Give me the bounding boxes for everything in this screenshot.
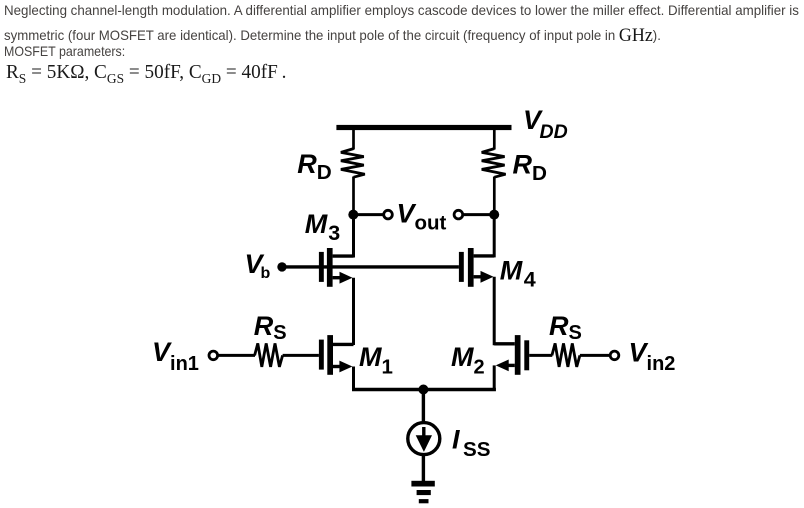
wire VDD to left RD — [352, 130, 355, 150]
resistor RD left — [341, 149, 365, 178]
svg-text:VDD: VDD — [523, 105, 568, 143]
node left drain (dot) — [348, 210, 358, 220]
Vin1 terminal (open circle) — [209, 351, 218, 360]
Vin2 terminal (open circle) — [610, 351, 619, 360]
transistor M3 — [319, 248, 354, 287]
svg-text:RD: RD — [513, 149, 548, 185]
wire left node to M3 drain — [352, 215, 355, 258]
wire Vout terminal right to right node — [463, 213, 494, 216]
svg-text:Vin1: Vin1 — [152, 337, 199, 375]
wire M4 source down to M2 drain — [493, 277, 496, 346]
wire RS right to Vin2 — [580, 354, 610, 357]
svg-text:RS: RS — [254, 311, 287, 344]
transistor M1 — [319, 335, 354, 375]
transistor M4 — [459, 248, 494, 287]
wire current source to ground — [422, 455, 425, 482]
svg-text:M4: M4 — [500, 255, 536, 291]
tail node (dot) — [418, 385, 428, 395]
node right drain (dot) — [489, 210, 499, 220]
wire M3 source down to M1 drain — [352, 278, 355, 345]
wire M2 gate to RS right — [529, 354, 552, 357]
resistor RS right — [552, 343, 580, 367]
svg-text:M2: M2 — [451, 342, 485, 379]
wire tail node to current source — [422, 390, 425, 423]
svg-text:Vb: Vb — [245, 249, 271, 282]
resistor RS left — [255, 343, 283, 367]
wire node to Vout terminal left — [353, 213, 383, 216]
problem statement line 3 — [4, 43, 125, 59]
wire VDD to right RD — [493, 130, 496, 150]
tail wire — [352, 388, 496, 391]
wire M1 source down to tail — [352, 367, 355, 392]
resistor RD right — [482, 149, 506, 178]
svg-text:Vout: Vout — [397, 199, 447, 235]
wire RD left to node — [352, 177, 355, 215]
wire RD right to node — [493, 177, 496, 215]
svg-text:M1: M1 — [359, 342, 393, 378]
transistor M2 — [494, 335, 529, 375]
VDD rail — [336, 125, 511, 130]
problem statement line 2 — [4, 24, 661, 46]
problem statement line 1 — [4, 2, 799, 18]
wire M2 source down to tail — [493, 365, 496, 391]
wire right node to M4 drain — [493, 215, 496, 258]
Vb node (dot) — [277, 262, 286, 271]
wire Vin1 to RS left — [218, 354, 255, 357]
svg-text:Vin2: Vin2 — [629, 337, 676, 375]
svg-text:M3: M3 — [305, 209, 341, 245]
Vout terminal left (open circle) — [384, 210, 393, 219]
wire Vb to M3 and M4 gates — [282, 265, 459, 268]
svg-text:RD: RD — [297, 149, 332, 184]
svg-text:RS: RS — [549, 311, 582, 344]
MOSFET parameters formula — [6, 61, 286, 88]
svg-text:ISS: ISS — [452, 424, 491, 461]
current source ISS — [408, 423, 440, 455]
wire RS left to M1 gate — [283, 354, 319, 357]
Vout terminal right (open circle) — [454, 210, 463, 219]
ground — [411, 481, 434, 504]
